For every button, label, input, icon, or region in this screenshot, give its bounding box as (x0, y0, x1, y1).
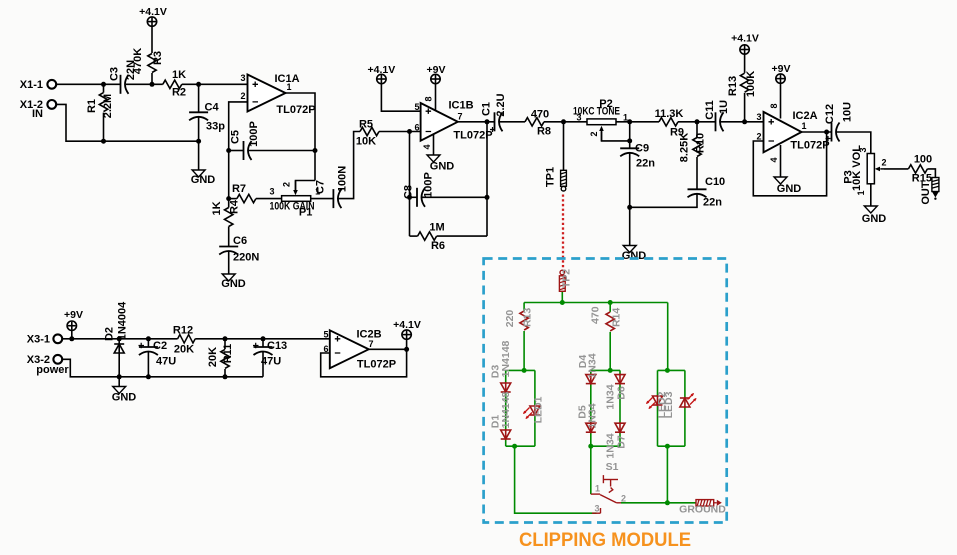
node TP1 (561, 119, 566, 124)
svg-text:C2: C2 (153, 340, 167, 352)
svg-text:IC1B: IC1B (448, 100, 473, 112)
wire P3 wiper to R15 (884, 168, 908, 170)
wire +4.1V to IC1B pin5 (381, 84, 420, 112)
resistor R3 (148, 54, 156, 73)
wire R4 stubs (228, 199, 230, 208)
wire IC2A output to C12 (802, 131, 832, 133)
capacitor C3 (121, 75, 129, 94)
terminal X3-2 (53, 355, 62, 364)
svg-text:1: 1 (856, 190, 866, 195)
wire P2 wiper to C9 rail (602, 131, 630, 141)
svg-text:GND: GND (191, 174, 216, 186)
svg-text:220: 220 (504, 310, 516, 328)
wire IC2B output (369, 348, 407, 350)
svg-text:LED1: LED1 (533, 396, 545, 423)
svg-text:TP2: TP2 (561, 269, 573, 288)
svg-text:4: 4 (769, 157, 779, 162)
arrows LED1 (524, 408, 530, 414)
node IC2A out (824, 130, 829, 135)
svg-text:+4.1V: +4.1V (139, 6, 167, 18)
wire C1 to R8 (499, 121, 525, 123)
node R11 bottom (223, 374, 228, 379)
power +4.1V (R13) (740, 45, 749, 54)
svg-text:6: 6 (414, 122, 419, 132)
op-amp IC2A (764, 112, 802, 152)
wire C2 stubs (147, 339, 149, 347)
svg-text:+4.1V: +4.1V (731, 33, 759, 45)
node left branch bottom (512, 444, 517, 449)
wire IC2A feedback loop (753, 132, 826, 196)
svg-text:R12: R12 (173, 325, 193, 337)
wire C13 stubs (262, 339, 264, 347)
svg-text:power: power (36, 364, 69, 376)
wire R13 stubs (523, 303, 525, 312)
resistor R13 (module 220) (520, 311, 528, 330)
capacitor C8 (417, 188, 425, 207)
resistor R4 (225, 208, 233, 227)
svg-text:GND: GND (112, 392, 137, 404)
svg-text:2: 2 (621, 494, 626, 504)
svg-text:470K: 470K (132, 48, 144, 74)
power +4.1V (R3) (147, 17, 156, 26)
resistor R12 (178, 335, 196, 343)
svg-text:220N: 220N (233, 252, 259, 264)
resistor R11 (221, 349, 229, 368)
capacitor C11 (716, 112, 724, 131)
wire X3-1 row to IC2B pin5 (62, 338, 119, 340)
ground under IC2A pin4 (774, 177, 787, 184)
resistor R10 (693, 138, 701, 157)
svg-text:C9: C9 (635, 143, 649, 155)
wire middle branch rect (591, 369, 620, 371)
ground under C6 (222, 274, 235, 281)
svg-text:R10: R10 (695, 133, 707, 153)
node D2 top (117, 336, 122, 341)
svg-text:2: 2 (756, 132, 761, 142)
svg-text:22n: 22n (703, 197, 722, 209)
svg-text:470: 470 (590, 306, 602, 324)
svg-text:1: 1 (595, 484, 600, 494)
svg-text:+4.1V: +4.1V (393, 319, 421, 331)
svg-text:1K: 1K (172, 69, 186, 81)
wire IC2B feedback loop (321, 349, 407, 377)
test point TP1 (561, 170, 567, 191)
svg-text:1: 1 (801, 121, 806, 131)
resistor R1 (99, 93, 107, 112)
wire +9V stub (71, 330, 73, 339)
wire +9V to IC1B pin8 (435, 84, 437, 111)
svg-text:22n: 22n (636, 158, 655, 170)
LED LED2 (653, 395, 663, 406)
svg-text:GND: GND (777, 183, 802, 195)
wire X1-1 row to IC1A pin3 (56, 83, 120, 85)
terminal X1-2 (47, 100, 56, 109)
svg-text:10K: 10K (356, 136, 376, 148)
svg-text:1N4148: 1N4148 (500, 391, 512, 428)
wire IC2A pin4 to gnd (780, 145, 782, 177)
svg-text:GND: GND (221, 278, 246, 290)
ground symbols (113, 155, 878, 394)
wire +4.1V stub at IC2B (406, 339, 408, 349)
node C4 top (196, 82, 201, 87)
resistor R2 (163, 80, 182, 88)
svg-text:1M: 1M (429, 222, 444, 234)
wire middle branch to S1 pin1 (590, 446, 592, 494)
ground jack GROUND (696, 500, 722, 506)
op-amp IC1A (248, 75, 286, 112)
diode D1 (501, 429, 511, 440)
plus of C13 (253, 343, 259, 349)
resistor R9 (659, 118, 678, 126)
node middle branch bottom (588, 444, 593, 449)
svg-text:11.3K: 11.3K (655, 108, 684, 120)
svg-text:1K: 1K (211, 201, 223, 215)
svg-text:+9V: +9V (427, 64, 446, 76)
wire C12 to P3 (836, 132, 871, 154)
wire IC1B output right rail (458, 121, 495, 123)
node C5 left (226, 148, 231, 153)
svg-text:C3: C3 (109, 67, 121, 81)
arrows LED3 (690, 399, 696, 405)
plus of C1 (490, 127, 495, 132)
svg-text:2.2U: 2.2U (495, 93, 507, 116)
svg-text:R7: R7 (232, 183, 246, 195)
capacitor C9 (620, 148, 639, 156)
terminal X3-1 (53, 334, 62, 343)
svg-text:C4: C4 (205, 102, 220, 114)
plus of C12 (826, 136, 831, 141)
svg-text:R2: R2 (172, 87, 186, 99)
node C13 top (261, 336, 266, 341)
wire TP2 stub (561, 291, 563, 302)
wire R5 to IC1B pin6 (379, 131, 421, 133)
svg-text:C11: C11 (704, 100, 716, 120)
diode D4 (586, 374, 596, 385)
module border (484, 259, 727, 523)
svg-text:1U: 1U (718, 100, 730, 114)
svg-text:1N34: 1N34 (587, 353, 599, 378)
svg-text:5: 5 (323, 330, 328, 340)
node R10 top (695, 119, 700, 124)
svg-text:1N4148: 1N4148 (500, 340, 512, 377)
svg-text:R11: R11 (222, 344, 234, 364)
ground under C4 (192, 170, 205, 177)
capacitor C6 (219, 247, 238, 255)
svg-text:C5: C5 (230, 130, 242, 144)
wire left branch to S1 pin3 (515, 446, 597, 513)
node C9 bottom (627, 205, 632, 210)
red module components (501, 311, 690, 440)
red dotted link TP1-TP2 (562, 195, 564, 268)
wire C9/C10 rail to gnd (629, 207, 631, 245)
wire IC1B pin4 to gnd (433, 134, 435, 155)
svg-text:R5: R5 (359, 119, 373, 131)
svg-text:100N: 100N (336, 166, 348, 192)
wire D2 stubs (118, 339, 120, 344)
node +9V X3 (69, 336, 74, 341)
diode D2 (114, 343, 124, 354)
node R3 bottom (150, 82, 155, 87)
svg-text:33p: 33p (206, 121, 225, 133)
node C8 left (407, 195, 412, 200)
svg-text:GND: GND (622, 250, 647, 262)
green junction dots (512, 300, 670, 505)
plus of C2 (139, 343, 145, 349)
svg-text:+9V: +9V (64, 309, 83, 321)
resistor R5 (360, 127, 379, 135)
node R14 to middle branch (608, 368, 613, 373)
switch S1 (591, 475, 621, 513)
svg-text:TP1: TP1 (545, 167, 557, 187)
svg-text:3: 3 (269, 187, 274, 197)
LED arrows (523, 393, 697, 419)
svg-text:TL072P: TL072P (276, 104, 315, 116)
ground under IC1B pin4 (427, 155, 440, 162)
ground under P3 (864, 206, 877, 213)
ground under D2 (113, 387, 126, 394)
wire C11 to IC2A pin3 (720, 121, 764, 123)
wire IC1B feedback left rail (409, 132, 411, 237)
svg-text:TL072P: TL072P (790, 140, 829, 152)
node R7/R4 (226, 196, 231, 201)
svg-text:R14: R14 (611, 308, 623, 327)
svg-text:LED3: LED3 (663, 391, 675, 418)
resistor R8 (525, 118, 544, 126)
potentiometer P1 (282, 181, 311, 202)
node R14 top (608, 300, 613, 305)
svg-text:3: 3 (594, 504, 599, 514)
wire right drop to LED branch (667, 303, 669, 371)
svg-text:X3-1: X3-1 (27, 334, 50, 346)
svg-text:6: 6 (323, 344, 328, 354)
wire TP1 stub (563, 122, 565, 171)
svg-text:1: 1 (286, 82, 291, 92)
svg-text:2: 2 (881, 158, 886, 168)
svg-text:2: 2 (240, 91, 245, 101)
svg-text:3: 3 (756, 112, 761, 122)
diode D6 (615, 374, 625, 385)
wire R1 stubs (103, 84, 105, 92)
gray module labels (490, 269, 727, 516)
LED LED3 (680, 397, 690, 408)
wire P2 pin1 to R9 (616, 121, 659, 123)
arrows LED2 (647, 398, 653, 404)
node C4 bottom (196, 139, 201, 144)
svg-text:20K: 20K (174, 344, 194, 356)
diode D7 (615, 422, 625, 433)
svg-text:R1: R1 (86, 99, 98, 113)
wire C8 row (410, 196, 418, 198)
capacitor C4 (189, 112, 208, 120)
wire P3 pin1 to gnd (870, 184, 872, 206)
svg-text:+4.1V: +4.1V (368, 64, 396, 76)
wire X1-2 to bottom rail (56, 104, 199, 141)
node D2 bottom (117, 374, 122, 379)
power symbols (67, 17, 785, 339)
wire R10 column (696, 122, 698, 137)
svg-text:TL072P: TL072P (357, 359, 396, 371)
svg-text:8: 8 (769, 103, 779, 108)
LED LED1 (530, 405, 540, 416)
svg-text:C8: C8 (403, 185, 415, 199)
node R13 to left branch (522, 368, 527, 373)
wire R15 to OUT jack (927, 169, 935, 178)
green wires (506, 291, 696, 513)
svg-text:D2: D2 (104, 327, 116, 341)
test point TP2 (559, 270, 565, 291)
power +4.1V (IC2B out) (402, 330, 411, 339)
wire P1 pin1 to C7 to R5 (311, 198, 334, 200)
op-amp IC1B (421, 103, 458, 141)
svg-text:1: 1 (623, 113, 628, 123)
node C2 bottom (146, 374, 151, 379)
svg-text:GROUND: GROUND (679, 504, 726, 516)
diode D5 (586, 422, 596, 433)
svg-text:TL072P: TL072P (453, 130, 492, 142)
svg-text:47U: 47U (156, 356, 176, 368)
wire LED branch drop (666, 446, 668, 503)
capacitor C7 (333, 189, 341, 208)
svg-text:100: 100 (914, 154, 932, 166)
svg-text:2: 2 (282, 182, 292, 187)
power +4.1V (IC1B pin5) (377, 74, 386, 83)
wire +9V to IC2A pin8 (780, 83, 782, 118)
svg-text:R8: R8 (537, 126, 551, 138)
node IC1B out (485, 119, 490, 124)
node R1 top (101, 82, 106, 87)
svg-text:C1: C1 (481, 102, 493, 116)
svg-text:5: 5 (414, 102, 419, 112)
node R13 bottom (742, 119, 747, 124)
svg-text:C13: C13 (267, 340, 287, 352)
resistor R7 (237, 194, 256, 202)
svg-text:X1-1: X1-1 (20, 79, 43, 91)
svg-text:20K: 20K (207, 347, 219, 367)
svg-text:R13: R13 (522, 308, 534, 327)
svg-text:1N34: 1N34 (587, 403, 599, 428)
node LED branch bottom (665, 444, 670, 449)
potentiometer P3 (867, 154, 884, 184)
node LED branch top (665, 368, 670, 373)
capacitor C10 (688, 189, 707, 197)
svg-text:3: 3 (576, 113, 581, 123)
node P2 wiper (627, 138, 632, 143)
svg-text:2: 2 (589, 131, 599, 136)
wire X3-2 to power bottom rail (62, 359, 263, 377)
wire S1 pin2 to ground jack (621, 502, 696, 504)
svg-text:1N4004: 1N4004 (117, 301, 129, 340)
node R1 bottom (101, 139, 106, 144)
capacitor C1 (495, 112, 503, 131)
wire IC1A output rail (286, 93, 316, 181)
polarity marks (139, 127, 831, 348)
wire R13 stubs (744, 54, 746, 73)
wire C5 row (229, 150, 244, 152)
wire module top rail (524, 302, 668, 304)
op-amp IC2B (330, 330, 369, 368)
capacitor C2 (139, 347, 158, 355)
node ground jack (665, 500, 670, 505)
node C5 right (313, 148, 318, 153)
wire R14 stubs (609, 303, 611, 312)
svg-text:8: 8 (424, 96, 434, 101)
power +9V (IC2A pin8) (776, 74, 785, 83)
svg-text:3: 3 (240, 73, 245, 83)
svg-text:100K: 100K (745, 71, 757, 97)
wire C6 to gnd (228, 251, 230, 275)
wire LED branch rect (658, 369, 685, 371)
svg-text:R4: R4 (229, 199, 241, 214)
svg-text:R3: R3 (152, 51, 164, 65)
wire left branch rect (506, 369, 535, 371)
svg-text:7: 7 (457, 112, 462, 122)
resistor R14 (module 470) (606, 312, 614, 331)
resistor R13 (740, 73, 748, 92)
terminal X1-1 (47, 80, 56, 89)
node C8 right (485, 195, 490, 200)
svg-text:S1: S1 (606, 461, 619, 473)
svg-text:2.2M: 2.2M (102, 94, 114, 118)
wire R8 to P2 (544, 121, 587, 123)
svg-text:P1: P1 (299, 207, 312, 219)
svg-text:C10: C10 (705, 176, 725, 188)
capacitor C5 (244, 141, 252, 160)
svg-text:GND: GND (862, 213, 887, 225)
output jack OUT (932, 178, 939, 200)
svg-text:C6: C6 (233, 235, 247, 247)
svg-text:D7: D7 (616, 435, 628, 449)
svg-text:8.25K: 8.25K (679, 133, 691, 162)
svg-text:R6: R6 (431, 240, 445, 252)
svg-text:470: 470 (531, 109, 549, 121)
svg-text:C12: C12 (824, 104, 836, 124)
svg-text:OUT: OUT (920, 181, 932, 205)
wire R6 row (410, 235, 418, 237)
svg-text:4: 4 (422, 144, 432, 149)
svg-text:C7: C7 (315, 180, 327, 194)
svg-text:3: 3 (858, 147, 868, 152)
svg-text:IN: IN (32, 108, 43, 120)
wire R9 to C11 (678, 121, 716, 123)
wire D2 gnd stub (118, 377, 120, 387)
node R11 top (223, 336, 228, 341)
svg-text:100P: 100P (248, 121, 260, 147)
terminals (47, 80, 62, 364)
node IC1B pin6 (407, 129, 412, 134)
capacitor C12 (832, 123, 840, 142)
svg-text:CLIPPING MODULE: CLIPPING MODULE (519, 530, 691, 551)
wire P1 wiper link (296, 181, 316, 192)
power +9V (X3-1) (67, 321, 76, 330)
node TP2 (560, 300, 565, 305)
wire R3 stubs from +4.1V (151, 26, 153, 53)
wire IC1A pin2 rail (229, 102, 248, 199)
svg-text:7: 7 (368, 339, 373, 349)
capacitor C13 (254, 347, 273, 355)
resistor R6 (418, 232, 437, 240)
svg-text:47U: 47U (261, 356, 281, 368)
wire C10 bottom link (630, 194, 697, 208)
potentiometer P2 (587, 119, 616, 141)
wire C4 stubs and gnd (198, 84, 200, 112)
svg-text:+9V: +9V (772, 63, 791, 75)
svg-text:10U: 10U (841, 102, 853, 122)
resistor R15 (908, 165, 927, 173)
svg-text:GND: GND (430, 161, 455, 173)
wire R7 to P1 (229, 198, 237, 200)
ground under C9 rail (623, 246, 636, 253)
wire C9 rail (629, 122, 631, 149)
